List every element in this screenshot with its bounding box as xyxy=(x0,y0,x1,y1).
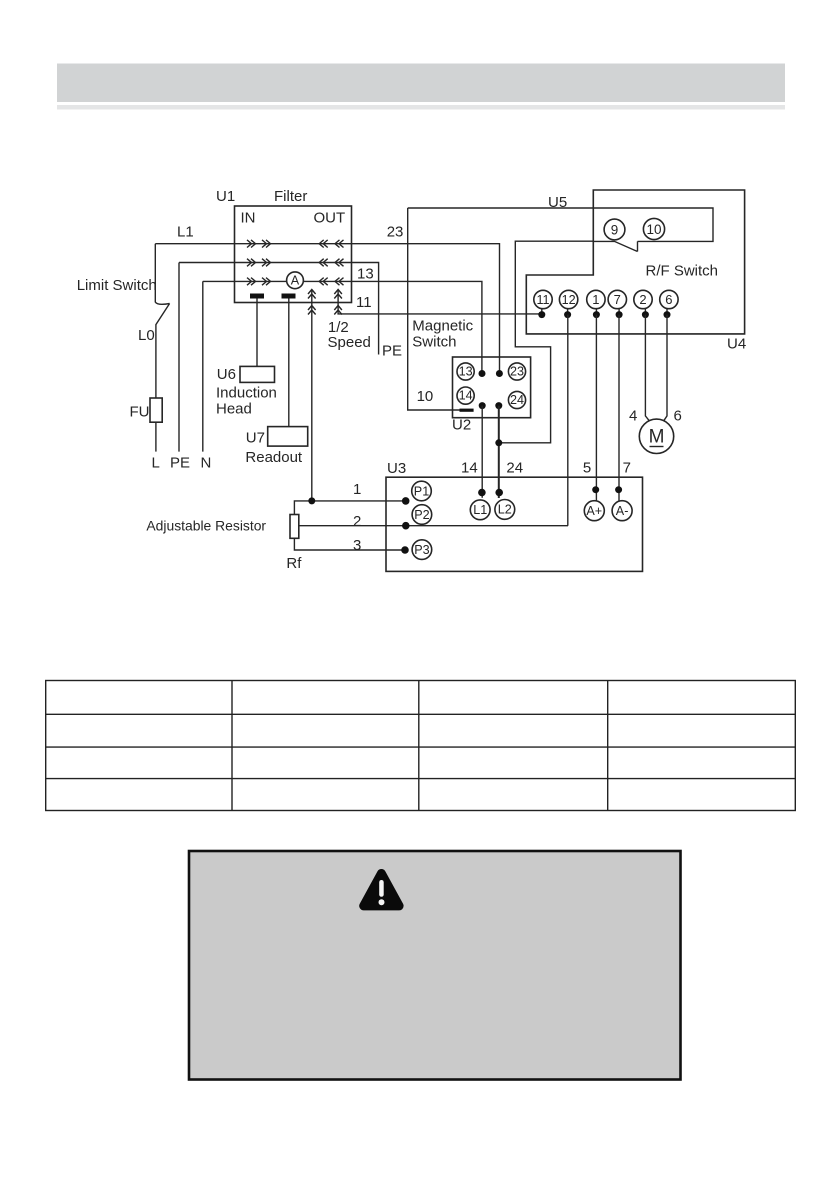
svg-text:OUT: OUT xyxy=(314,210,346,227)
terminal 12 xyxy=(559,290,577,308)
labels 4 6 xyxy=(629,408,682,425)
svg-text:4: 4 xyxy=(629,408,637,425)
terminal 11 xyxy=(534,290,552,308)
svg-text:A+: A+ xyxy=(586,504,602,518)
svg-text:A: A xyxy=(291,274,300,288)
terminal P3 xyxy=(412,540,432,560)
capacitor bar 1 xyxy=(250,294,264,299)
svg-text:PE: PE xyxy=(170,455,190,472)
terminal L2 xyxy=(495,500,515,520)
svg-text:14: 14 xyxy=(459,389,473,403)
svg-text:11: 11 xyxy=(536,293,549,307)
wire 24 down xyxy=(498,406,500,498)
terminal P2 xyxy=(412,505,432,525)
magnetic switch U2 box xyxy=(452,357,531,434)
junction dot net24 xyxy=(495,439,502,446)
R/F switch U4 box xyxy=(526,190,746,353)
svg-text:Adjustable Resistor: Adjustable Resistor xyxy=(146,518,266,534)
labels L PE N xyxy=(152,455,212,472)
wire PE stub xyxy=(352,263,403,360)
contact 14 xyxy=(457,387,474,404)
svg-text:23: 23 xyxy=(387,224,404,241)
svg-text:Filter: Filter xyxy=(274,188,307,205)
svg-text:Limit Switch: Limit Switch xyxy=(77,277,157,294)
svg-text:6: 6 xyxy=(674,408,682,425)
svg-text:L0: L0 xyxy=(138,327,155,344)
svg-text:U4: U4 xyxy=(727,336,746,353)
svg-text:5: 5 xyxy=(583,460,591,477)
U2 terminal bar 10 xyxy=(460,409,474,412)
svg-text:24: 24 xyxy=(506,460,523,477)
svg-text:L: L xyxy=(152,455,160,472)
filter chevrons row1 xyxy=(247,240,344,248)
wire L1 row1 xyxy=(155,224,351,244)
svg-text:U2: U2 xyxy=(452,417,471,434)
readout U7 xyxy=(245,299,307,467)
filter chevrons row2 xyxy=(247,259,344,267)
svg-text:P3: P3 xyxy=(414,543,429,557)
U2 row2 dots xyxy=(479,402,503,409)
svg-text:2: 2 xyxy=(353,513,361,530)
wire 3 xyxy=(294,537,405,554)
terminal 2 xyxy=(634,290,652,308)
wire 13 xyxy=(352,266,482,374)
wire 4 to motor xyxy=(645,315,649,421)
svg-text:12: 12 xyxy=(562,293,576,307)
svg-text:7: 7 xyxy=(623,460,631,477)
wire 11 chevrons xyxy=(334,290,342,315)
svg-text:3: 3 xyxy=(353,537,361,554)
terminal A+ xyxy=(584,501,604,521)
svg-text:1: 1 xyxy=(592,292,599,307)
svg-text:9: 9 xyxy=(611,222,619,237)
wire 1 xyxy=(294,481,405,515)
capacitor bar 2 xyxy=(282,294,296,299)
wire 11 xyxy=(338,290,542,314)
svg-text:Rf: Rf xyxy=(286,555,302,572)
contact 10 xyxy=(643,218,664,239)
svg-text:PE: PE xyxy=(382,343,402,360)
terminal A- xyxy=(612,501,632,521)
contact 24 xyxy=(508,391,525,408)
wire 5 down xyxy=(595,315,597,501)
svg-text:10: 10 xyxy=(646,222,661,237)
table xyxy=(46,681,796,811)
wire U5 xyxy=(408,194,713,241)
P terminal dots xyxy=(401,497,409,554)
limit switch xyxy=(77,244,170,398)
svg-text:Speed: Speed xyxy=(328,334,371,351)
fuse FU xyxy=(130,398,163,452)
svg-text:Head: Head xyxy=(216,401,252,418)
svg-text:13: 13 xyxy=(357,266,374,283)
label 1/2 speed xyxy=(328,319,371,351)
resistor Rf xyxy=(146,515,302,573)
wire N mains xyxy=(202,281,204,451)
svg-text:11: 11 xyxy=(356,294,372,311)
svg-text:U1: U1 xyxy=(216,188,235,205)
svg-text:Readout: Readout xyxy=(245,449,303,466)
wire 6 to motor xyxy=(664,315,667,421)
svg-text:IN: IN xyxy=(241,210,256,227)
magnetic switch label xyxy=(412,318,473,351)
svg-text:Magnetic: Magnetic xyxy=(412,318,473,335)
terminal P1 xyxy=(412,481,432,501)
wire speed stub xyxy=(311,290,313,501)
wire 2 xyxy=(299,513,568,530)
svg-text:U7: U7 xyxy=(246,430,265,447)
warning triangle xyxy=(364,874,399,906)
meter circle A xyxy=(287,272,304,289)
svg-text:L1: L1 xyxy=(177,224,194,241)
svg-text:24: 24 xyxy=(510,393,524,407)
svg-text:L1: L1 xyxy=(473,503,487,517)
svg-text:1: 1 xyxy=(353,481,361,498)
svg-text:14: 14 xyxy=(461,460,478,477)
terminal 6 xyxy=(660,290,678,308)
terminal dots above L1 L2 xyxy=(478,489,503,497)
header underline xyxy=(57,105,785,110)
svg-text:10: 10 xyxy=(417,388,434,405)
U2 row1 dots xyxy=(479,370,503,377)
svg-text:P1: P1 xyxy=(414,484,429,498)
svg-text:N: N xyxy=(201,455,212,472)
filter U1 box xyxy=(216,188,352,303)
U3 box xyxy=(386,460,643,571)
terminal 1 xyxy=(587,290,605,308)
svg-text:M: M xyxy=(649,427,665,448)
motor M xyxy=(639,419,673,453)
filter chevrons row3 xyxy=(247,278,344,286)
warning box xyxy=(189,851,681,1080)
svg-text:6: 6 xyxy=(665,292,672,307)
svg-text:P2: P2 xyxy=(414,508,429,522)
wire 12 down xyxy=(567,315,569,526)
wire 10 xyxy=(408,208,460,410)
svg-text:L2: L2 xyxy=(498,503,512,517)
svg-text:Switch: Switch xyxy=(412,334,456,351)
svg-text:R/F Switch: R/F Switch xyxy=(646,263,719,280)
svg-text:A-: A- xyxy=(616,504,629,518)
wire 14 down xyxy=(481,406,483,498)
junction dot U7 wire1 xyxy=(308,497,315,504)
wire 23 xyxy=(352,224,500,374)
svg-text:U3: U3 xyxy=(387,460,406,477)
A+ A- dots xyxy=(592,486,622,493)
node dots under terminals xyxy=(538,309,670,318)
induction head U6 xyxy=(216,299,277,418)
contact 23 xyxy=(508,363,525,380)
svg-text:FU: FU xyxy=(130,404,150,421)
switch 9 blade xyxy=(593,241,637,251)
svg-text:7: 7 xyxy=(614,292,621,307)
terminal L1 xyxy=(470,500,490,520)
svg-text:23: 23 xyxy=(510,365,524,379)
labels 14 24 5 7 xyxy=(461,460,631,477)
speed stub chevrons xyxy=(308,290,316,315)
header bar xyxy=(57,64,785,103)
wire N row3 xyxy=(203,280,352,282)
wire PE mains xyxy=(178,263,180,452)
contact 13 xyxy=(457,363,474,380)
svg-text:2: 2 xyxy=(639,292,646,307)
svg-text:13: 13 xyxy=(459,365,473,379)
svg-text:U6: U6 xyxy=(217,366,236,383)
contact 9 xyxy=(604,219,625,240)
terminal 7 xyxy=(608,290,626,308)
net 24 upper run xyxy=(499,241,594,443)
wire PE row2 xyxy=(179,262,352,264)
wire 7 down xyxy=(618,315,620,501)
svg-text:Induction: Induction xyxy=(216,384,277,401)
